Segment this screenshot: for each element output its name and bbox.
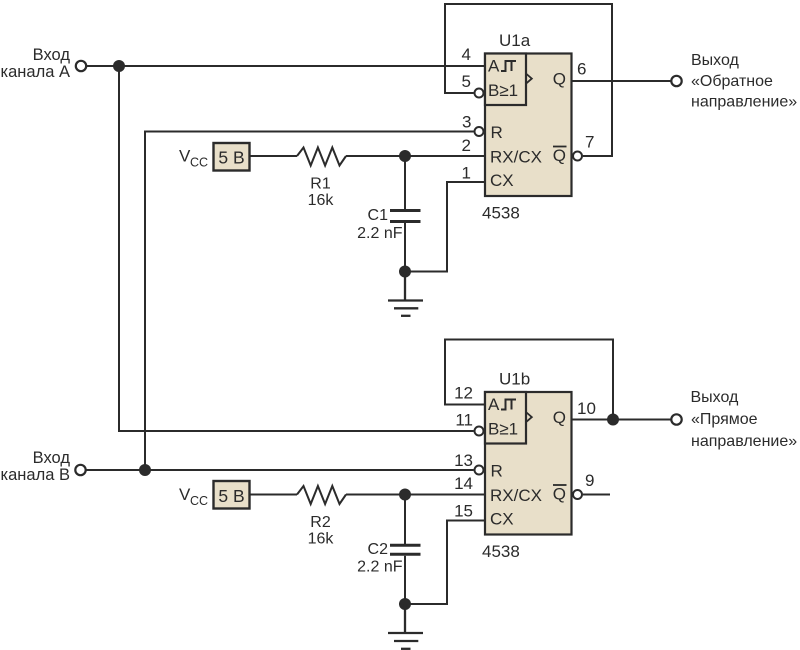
svg-text:Q: Q (553, 408, 566, 427)
ground (C1) (388, 272, 423, 316)
wire R1 to U1a pin 2 (346, 155, 485, 157)
Vcc supply box 5V (bottom) (214, 481, 250, 509)
svg-text:A: A (488, 57, 500, 76)
wire channel B to U1b pin 13 (87, 469, 474, 471)
svg-text:B≥1: B≥1 (488, 420, 518, 439)
svg-text:C2: C2 (368, 541, 389, 558)
junction Q U1b (607, 414, 619, 426)
svg-text:2: 2 (462, 136, 471, 155)
junction C2 CX ground (399, 598, 411, 610)
svg-text:C1: C1 (368, 207, 389, 224)
svg-text:5 В: 5 В (218, 148, 244, 168)
svg-text:5 В: 5 В (218, 486, 244, 506)
junction C1 CX ground (399, 266, 411, 278)
U1a pin 3 inverting circle (475, 127, 484, 136)
svg-text:канала A: канала A (1, 63, 70, 81)
IC U1a body (485, 54, 572, 197)
svg-text:11: 11 (455, 411, 473, 430)
wire R2 to U1b pin 14 (346, 494, 485, 496)
wire C1 to ground junction (404, 223, 406, 272)
svg-text:9: 9 (585, 471, 594, 490)
U1a Q-bar overline (553, 146, 567, 148)
U1b clock arrow (527, 413, 532, 422)
IC U1b body (485, 392, 572, 535)
U1b Q-bar overline (553, 484, 567, 486)
U1a A edge pulse symbol (501, 61, 516, 71)
junction R2 C2 pin14 (399, 489, 411, 501)
svg-text:Вход: Вход (33, 46, 71, 64)
svg-text:Вход: Вход (33, 449, 71, 467)
svg-text:16k: 16k (308, 531, 335, 548)
svg-text:«Обратное: «Обратное (691, 73, 773, 90)
svg-text:Выход: Выход (691, 52, 740, 69)
svg-text:4: 4 (462, 45, 471, 64)
svg-text:RX/CX: RX/CX (490, 148, 542, 167)
svg-text:CX: CX (490, 510, 514, 529)
svg-text:16k: 16k (308, 192, 335, 209)
svg-text:B≥1: B≥1 (488, 81, 518, 100)
wire junction to C1 (404, 156, 406, 209)
wire U1a pin 3 R to channel B (145, 132, 474, 471)
U1b trigger section box (485, 392, 526, 444)
capacitor C2 (390, 545, 421, 554)
U1b A edge pulse symbol (501, 400, 516, 410)
svg-text:13: 13 (454, 451, 473, 470)
svg-text:7: 7 (585, 133, 594, 152)
U1b pin 9 inverting circle (573, 490, 582, 499)
U1a pin 7 inverting circle (573, 152, 582, 161)
svg-text:CX: CX (490, 171, 514, 190)
wire U1b feedback Q to pin 12 (445, 340, 613, 420)
wire Vcc box 2 to resistor R2 (250, 494, 297, 496)
U1a clock arrow (527, 74, 532, 83)
svg-text:Q: Q (553, 146, 566, 165)
wire junction to U1b pin 15 CX (405, 521, 485, 605)
wire channel A down to U1b pin 11 (119, 66, 474, 431)
output terminal forward direction (671, 414, 681, 424)
svg-text:2.2 nF: 2.2 nF (357, 225, 403, 242)
svg-text:3: 3 (462, 113, 471, 132)
wire U1b Q to output terminal (572, 419, 672, 421)
svg-text:1: 1 (462, 163, 471, 182)
U1b pin 13 inverting circle (475, 466, 484, 475)
svg-text:канала B: канала B (1, 466, 70, 484)
input terminal channel B (75, 465, 85, 475)
svg-text:CC: CC (190, 494, 208, 508)
svg-text:«Прямое: «Прямое (691, 411, 758, 428)
svg-text:4538: 4538 (482, 204, 520, 223)
wire channel A to U1a pin 4 (87, 65, 485, 67)
U1b pin 9 stub (583, 494, 610, 496)
junction channel B (139, 464, 151, 476)
wire junction to C2 (404, 495, 406, 545)
svg-text:Q: Q (553, 485, 566, 504)
U1a pin 5 inverting circle (475, 89, 484, 98)
capacitor C1 (390, 211, 421, 222)
svg-text:5: 5 (462, 72, 471, 91)
svg-text:R2: R2 (310, 514, 331, 531)
svg-text:R: R (491, 123, 503, 142)
svg-text:Выход: Выход (691, 389, 740, 406)
output terminal reverse direction (671, 76, 681, 86)
svg-text:направление»: направление» (691, 433, 797, 450)
svg-text:Q: Q (553, 70, 566, 89)
svg-text:R: R (491, 462, 503, 481)
svg-text:4538: 4538 (482, 542, 520, 561)
svg-text:направление»: направление» (691, 94, 797, 111)
svg-text:2.2 nF: 2.2 nF (357, 559, 403, 576)
svg-text:RX/CX: RX/CX (490, 486, 542, 505)
resistor R2 (297, 486, 346, 504)
wire C2 to ground junction (404, 556, 406, 604)
Vcc supply box 5V (top) (214, 143, 250, 171)
svg-text:CC: CC (190, 156, 208, 170)
wire U1a Q to output terminal (572, 80, 672, 82)
svg-text:14: 14 (454, 474, 473, 493)
svg-text:A: A (488, 395, 500, 414)
svg-text:12: 12 (454, 384, 473, 403)
resistor R1 (297, 148, 346, 166)
U1b pin 11 inverting circle (475, 427, 484, 436)
svg-text:6: 6 (577, 59, 586, 78)
svg-text:R1: R1 (310, 176, 331, 193)
svg-text:15: 15 (454, 502, 473, 521)
svg-text:U1b: U1b (499, 370, 530, 389)
junction channel A (113, 60, 125, 72)
U1a trigger section box (485, 54, 526, 106)
wire Vcc box 1 to resistor R1 (250, 155, 297, 157)
wire junction to U1a pin 1 CX (405, 182, 485, 272)
wire U1a feedback Q-bar to pin 5 (445, 4, 612, 156)
svg-text:10: 10 (577, 399, 596, 418)
svg-text:U1a: U1a (499, 31, 531, 50)
input terminal channel A (76, 61, 86, 71)
ground (C2) (388, 604, 423, 649)
junction R1 C1 pin2 (399, 150, 411, 162)
